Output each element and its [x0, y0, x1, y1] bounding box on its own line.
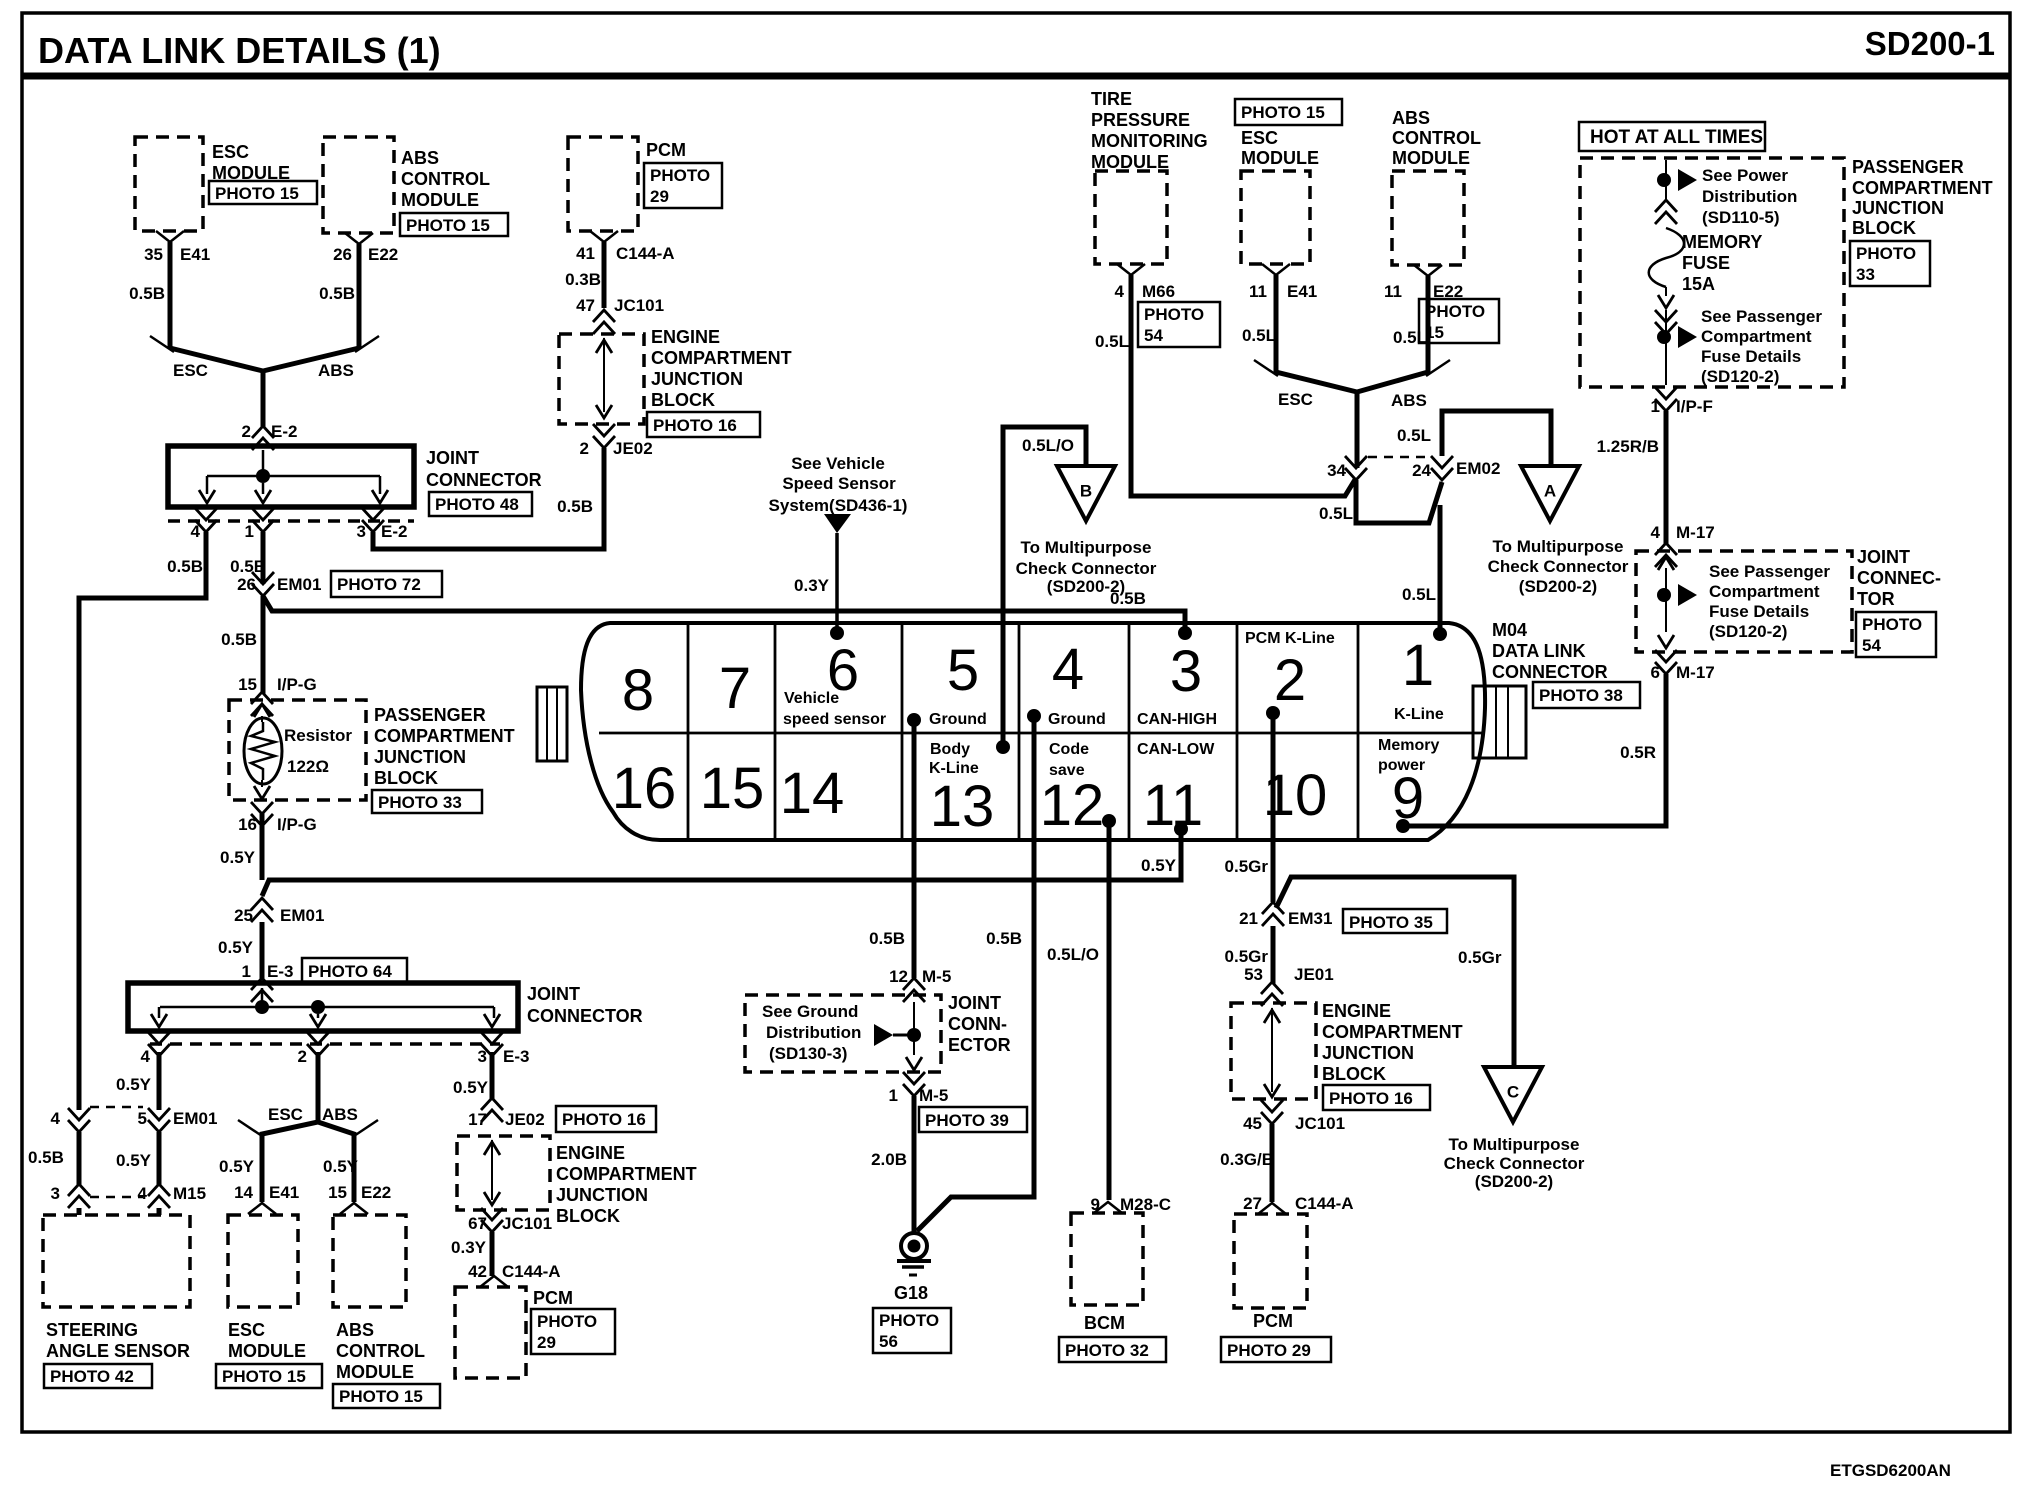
wire 0.5Gr EM31-21 to JE01 53 [1271, 926, 1276, 984]
label JOINT CONNECTOR (2) [527, 984, 643, 1026]
label 15 I/P-G [238, 675, 317, 694]
resistor R 122ohm ellipse [244, 718, 282, 784]
svg-text:15: 15 [700, 756, 765, 821]
svg-text:0.5L: 0.5L [1393, 328, 1427, 347]
svg-text:EM01: EM01 [277, 575, 321, 594]
svg-text:To Multipurpose: To Multipurpose [1493, 537, 1624, 556]
svg-text:12: 12 [1040, 773, 1105, 838]
svg-text:M-5: M-5 [919, 1086, 948, 1105]
svg-text:JUNCTION: JUNCTION [374, 747, 466, 767]
svg-text:speed sensor: speed sensor [783, 711, 886, 728]
wire 0.5Y EM01-5 to M15-4 [157, 1132, 162, 1186]
svg-text:0.5B: 0.5B [986, 929, 1022, 948]
svg-text:6: 6 [1651, 663, 1660, 682]
svg-text:To Multipurpose: To Multipurpose [1021, 538, 1152, 557]
svg-text:PHOTO: PHOTO [650, 166, 710, 185]
svg-text:CONNEC-: CONNEC- [1857, 568, 1941, 588]
svg-text:ABS: ABS [322, 1105, 358, 1124]
label 0.5L (M66) [1095, 332, 1129, 351]
svg-text:26: 26 [237, 575, 256, 594]
label PHOTO 54 (M66) [1138, 302, 1220, 347]
svg-text:56: 56 [879, 1332, 898, 1351]
svg-text:PHOTO: PHOTO [1862, 615, 1922, 634]
label 0.5L (to K-Line) [1402, 585, 1436, 604]
reference arrow See Passenger Compartment Fuse Details [1678, 326, 1697, 348]
label 0.5B (to I/P-G) [221, 630, 257, 649]
svg-text:PHOTO 64: PHOTO 64 [308, 962, 392, 981]
label 12 M-5 [889, 967, 951, 986]
label 0.5Y (ESC branch) [219, 1157, 255, 1176]
svg-text:HOT AT ALL TIMES: HOT AT ALL TIMES [1590, 127, 1763, 148]
svg-text:ESC: ESC [228, 1320, 265, 1340]
connector chevron EM02 pin 34 [1345, 456, 1367, 480]
svg-text:Ground: Ground [929, 711, 987, 728]
svg-text:26: 26 [333, 245, 352, 264]
label See Passenger Compartment Fuse Details (SD120-2) [1701, 307, 1822, 386]
label 0.5L (below 34) [1319, 504, 1353, 523]
svg-text:BLOCK: BLOCK [374, 768, 438, 788]
svg-text:PHOTO: PHOTO [1425, 302, 1485, 321]
label 9 M28-C [1091, 1195, 1171, 1214]
label 11 E22 [1384, 282, 1463, 301]
module PCM (top) dashed box [568, 137, 638, 231]
connector chevron E-3 pin 4 [148, 1032, 170, 1056]
svg-text:0.5B: 0.5B [167, 557, 203, 576]
connector chevron above fuse [1655, 200, 1677, 224]
wire into steering angle sensor (left) [77, 1208, 82, 1215]
svg-text:FUSE: FUSE [1682, 253, 1730, 273]
connector chevron JC101 pin 45 [1261, 1100, 1283, 1124]
label PHOTO 16 (bottom right) [1323, 1085, 1430, 1110]
svg-text:ENGINE: ENGINE [556, 1143, 625, 1163]
DLC cell border 1 [687, 623, 690, 840]
svg-text:MODULE: MODULE [401, 190, 479, 210]
label 14 E41 [234, 1183, 299, 1202]
wire 0.5B from E-2 pin 4 to EM01 pin 4 (long left) [79, 532, 206, 1110]
label To Multipurpose Check Connector (C) [1444, 1135, 1585, 1191]
data link connector M04 outline [581, 623, 1485, 840]
label 0.5L (E22 11) [1393, 328, 1427, 347]
svg-text:PCM: PCM [1253, 1311, 1293, 1331]
label 0.5B (pin4 wire) [167, 557, 203, 576]
label PHOTO 72 [331, 571, 442, 597]
svg-text:54: 54 [1862, 636, 1881, 655]
svg-text:ABS: ABS [336, 1320, 374, 1340]
svg-text:JE02: JE02 [505, 1110, 545, 1129]
label JOINT CONNECTOR (1) [426, 448, 542, 490]
resistor wire arrow in (top) [254, 704, 270, 722]
svg-text:17: 17 [468, 1110, 487, 1129]
label 0.5L (E41 11) [1242, 326, 1276, 345]
connector notch C144-A pin 42 [480, 1276, 508, 1287]
label 4 M66 [1115, 282, 1176, 301]
svg-text:Compartment: Compartment [1709, 582, 1820, 601]
svg-text:PHOTO 16: PHOTO 16 [562, 1110, 646, 1129]
svg-text:DATA LINK DETAILS (1): DATA LINK DETAILS (1) [38, 30, 441, 71]
DLC cell border 3 [901, 623, 904, 840]
wire merge ESC/ABS to node E-2 [170, 348, 359, 428]
svg-text:I/P-F: I/P-F [1676, 397, 1713, 416]
module BCM dashed box [1071, 1213, 1143, 1305]
label 0.3G/B [1220, 1150, 1274, 1169]
svg-text:1: 1 [889, 1086, 898, 1105]
wire stub ground distribution [893, 1034, 914, 1037]
svg-text:ECTOR: ECTOR [948, 1035, 1011, 1055]
svg-text:PHOTO: PHOTO [537, 1312, 597, 1331]
label 0.5Gr (EM31 21) [1225, 947, 1269, 966]
joint connector 2 box [128, 983, 518, 1031]
svg-text:PCM K-Line: PCM K-Line [1245, 630, 1335, 647]
label 0.5L/O (pin 12) [1047, 945, 1099, 964]
svg-text:0.5B: 0.5B [28, 1148, 64, 1167]
reference arrow See Passenger Compartment Fuse Details (M-17) [1678, 584, 1697, 606]
label 15 E22 [328, 1183, 391, 1202]
label 2 JE02 [580, 439, 653, 458]
svg-text:4: 4 [1052, 637, 1084, 702]
wire E-3 pin2 split to ESC and ABS [238, 1052, 378, 1202]
DLC cell border 2 [774, 623, 777, 840]
svg-text:ABS: ABS [401, 148, 439, 168]
connector chevron E-2 pin 4 [195, 508, 217, 532]
connector chevron JE02 pin 2 [593, 424, 615, 448]
DLC pin number 12 [1040, 773, 1105, 838]
label PHOTO 64 [302, 958, 407, 984]
label 1.25R/B [1597, 437, 1659, 456]
svg-text:MODULE: MODULE [336, 1362, 414, 1382]
svg-text:2: 2 [580, 439, 589, 458]
wire 1.25R/B I/P-F to M-17 4 [1664, 411, 1669, 545]
svg-text:11: 11 [1249, 282, 1267, 301]
junction block internal wire (top) [596, 338, 612, 418]
wire 0.5B from ESC module pin 35 [150, 242, 174, 352]
DLC pin number 4 [1052, 637, 1084, 702]
DLC pin number 5 [947, 638, 979, 703]
svg-text:3: 3 [51, 1184, 60, 1203]
svg-text:COMPARTMENT: COMPARTMENT [1322, 1022, 1463, 1042]
svg-text:0.5B: 0.5B [557, 497, 593, 516]
svg-text:EM02: EM02 [1456, 459, 1500, 478]
svg-text:ENGINE: ENGINE [651, 327, 720, 347]
label M04 DATA LINK CONNECTOR [1492, 620, 1608, 682]
label 0.5L (above EM02) [1397, 426, 1431, 445]
svg-text:2: 2 [1274, 648, 1306, 713]
connector notch E41 pin 35 [156, 231, 184, 242]
svg-text:0.5Y: 0.5Y [453, 1078, 489, 1097]
svg-text:47: 47 [576, 296, 595, 315]
label 0.5Gr (to C) [1458, 948, 1502, 967]
svg-text:CONTROL: CONTROL [1392, 128, 1481, 148]
svg-text:ANGLE SENSOR: ANGLE SENSOR [46, 1341, 190, 1361]
svg-text:See Power: See Power [1702, 166, 1788, 185]
svg-text:M04: M04 [1492, 620, 1527, 640]
DLC pin number 8 [622, 658, 654, 723]
svg-text:To Multipurpose: To Multipurpose [1449, 1135, 1580, 1154]
wire EM02-24 up to ref A [1442, 411, 1551, 466]
svg-text:15: 15 [238, 675, 257, 694]
label 25 EM01 [234, 906, 324, 925]
module ESC MODULE (top left) dashed box [135, 137, 203, 231]
wire 0.5Y E-3 pin3 to JE02 17 [490, 1052, 495, 1100]
label PHOTO 15 (ABS module) [400, 213, 508, 236]
svg-text:PHOTO: PHOTO [879, 1311, 939, 1330]
svg-text:E-3: E-3 [503, 1047, 529, 1066]
label CAN-HIGH [1137, 711, 1217, 728]
svg-text:JUNCTION: JUNCTION [1852, 198, 1944, 218]
junction dot (fuse details) [1657, 330, 1671, 344]
label To Multipurpose Check Connector (B) [1016, 538, 1157, 596]
resistor wire arrow out (bottom) [254, 780, 270, 799]
label PHOTO 35 [1343, 909, 1447, 933]
label Body K-Line [929, 741, 979, 777]
svg-text:0.5L/O: 0.5L/O [1022, 436, 1074, 455]
svg-text:PHOTO 15: PHOTO 15 [406, 216, 490, 235]
label 0.3Y (speed sensor) [794, 576, 830, 595]
label PHOTO 15 (ESC top) [1235, 99, 1342, 125]
label 2 E-2 [242, 422, 298, 441]
svg-text:G18: G18 [894, 1283, 928, 1303]
connector chevron E-3 pin 1 [251, 978, 273, 1002]
svg-text:12: 12 [889, 967, 908, 986]
svg-text:3: 3 [1170, 639, 1202, 704]
joint connector 1 box [168, 446, 414, 507]
svg-text:M-17: M-17 [1676, 663, 1715, 682]
svg-text:CAN-LOW: CAN-LOW [1137, 741, 1215, 758]
svg-text:4: 4 [191, 522, 201, 541]
svg-text:Ground: Ground [1048, 711, 1106, 728]
svg-text:(SD120-2): (SD120-2) [1701, 367, 1779, 386]
connector chevron JC101 pin 47 [593, 310, 615, 334]
svg-text:JOINT: JOINT [1857, 547, 1910, 567]
connector notch E22 pin 15 [340, 1203, 368, 1214]
svg-text:33: 33 [1856, 265, 1875, 284]
wire 0.5B DLC pin 4 to ground G18 [917, 716, 1034, 1231]
svg-text:PCM: PCM [533, 1288, 573, 1308]
label pins 4 2 3 E-3 [141, 1047, 530, 1066]
connector chevron E-2 pin 1 [252, 508, 274, 532]
connector E-3 dashed row [150, 1042, 500, 1046]
label ABS CONTROL MODULE [401, 148, 490, 210]
title DATA LINK DETAILS (1) [38, 30, 441, 71]
wire 2.0B M-5 1 to ground G18 [912, 1096, 917, 1234]
label K-Line [1394, 706, 1444, 723]
engine compartment junction block (bottom left) dashed box [457, 1136, 550, 1210]
svg-text:JE01: JE01 [1294, 965, 1334, 984]
svg-text:41: 41 [576, 244, 595, 263]
connector notch E22 pin 11 [1414, 265, 1442, 276]
svg-text:0.5R: 0.5R [1620, 743, 1656, 762]
svg-text:B: B [1080, 481, 1092, 500]
svg-text:M66: M66 [1142, 282, 1175, 301]
svg-text:EM01: EM01 [173, 1109, 217, 1128]
wire 0.5Gr EM31 branch to ref C [1276, 877, 1514, 1067]
svg-text:BLOCK: BLOCK [1322, 1064, 1386, 1084]
svg-text:Fuse Details: Fuse Details [1709, 602, 1809, 621]
svg-text:Check Connector: Check Connector [1444, 1154, 1585, 1173]
svg-text:ESC: ESC [1241, 128, 1278, 148]
svg-text:ESC: ESC [1278, 390, 1313, 409]
connector notch E41 pin 11 [1262, 264, 1290, 275]
label 0.5Y (EM01 5 to M15 4) [116, 1151, 152, 1170]
label PHOTO 15 (ESC bottom) [216, 1364, 322, 1388]
wire 0.5L/O DLC pin 12 to BCM M28-C 9 [1107, 821, 1112, 1200]
svg-text:JUNCTION: JUNCTION [651, 369, 743, 389]
svg-text:Distribution: Distribution [766, 1023, 861, 1042]
joint connector (M-17) dashed box [1636, 551, 1852, 652]
svg-text:DATA LINK: DATA LINK [1492, 641, 1586, 661]
svg-text:0.5Y: 0.5Y [1141, 856, 1177, 875]
connector M15 dashed link [90, 1196, 143, 1199]
svg-text:11: 11 [1143, 773, 1203, 838]
label ESC MODULE (bottom) [228, 1320, 306, 1361]
label PASSENGER COMPARTMENT JUNCTION BLOCK (resistor) [374, 705, 515, 788]
DLC pin number 11 [1143, 773, 1203, 838]
svg-text:C: C [1507, 1082, 1519, 1101]
joint connector 2 internal bus [160, 988, 494, 1007]
node dot DLC pin 11 [1174, 822, 1188, 836]
connector chevron I/P-G pin 16 [251, 802, 273, 826]
wire 0.5Y bus from DLC pin 11 to EM01 25 [262, 829, 1181, 896]
svg-text:0.5B: 0.5B [869, 929, 905, 948]
svg-text:54: 54 [1144, 326, 1163, 345]
junction dot inside joint connector 1 [256, 469, 270, 483]
svg-text:JOINT: JOINT [948, 993, 1001, 1013]
DLC pin number 1 [1402, 633, 1434, 698]
module ESC MODULE (top middle) dashed box [1241, 171, 1310, 264]
svg-text:E-2: E-2 [381, 522, 407, 541]
passenger compartment junction block (fuse) dashed box [1580, 158, 1844, 387]
svg-text:CAN-HIGH: CAN-HIGH [1137, 711, 1217, 728]
svg-text:A: A [1544, 481, 1556, 500]
svg-text:(SD130-3): (SD130-3) [769, 1044, 847, 1063]
svg-text:15A: 15A [1682, 274, 1715, 294]
wire 0.5L E22-11 to merge [1357, 276, 1450, 392]
label 0.5Y (EM01 25) [218, 938, 254, 957]
svg-text:Distribution: Distribution [1702, 187, 1797, 206]
svg-text:PHOTO: PHOTO [1856, 244, 1916, 263]
wire 0.5Gr DLC pin 2 to EM31 21 [1271, 713, 1276, 902]
svg-text:PHOTO 35: PHOTO 35 [1349, 913, 1433, 932]
svg-text:JC101: JC101 [1295, 1114, 1345, 1133]
svg-text:4: 4 [51, 1109, 61, 1128]
svg-text:M15: M15 [173, 1184, 206, 1203]
label 0.5Gr (pin 2) [1225, 857, 1269, 876]
wire EM01-26 down to I/P-G 15 [261, 596, 266, 694]
svg-text:JC101: JC101 [614, 296, 664, 315]
svg-text:0.5L: 0.5L [1319, 504, 1353, 523]
svg-text:E41: E41 [180, 245, 210, 264]
junction dot A inside joint connector 2 [255, 1000, 269, 1014]
connector chevron JC101 pin 67 [481, 1208, 503, 1232]
svg-text:SD200-1: SD200-1 [1865, 25, 1995, 62]
svg-text:See Passenger: See Passenger [1709, 562, 1830, 581]
wire E-2 pin1 to EM01 26 [261, 532, 266, 584]
connector chevron JE01 pin 53 [1261, 982, 1283, 1006]
wire below EM02-34 loop to EM02-24 [1356, 480, 1442, 523]
svg-text:15: 15 [1425, 323, 1444, 342]
svg-text:(SD200-2): (SD200-2) [1519, 577, 1597, 596]
svg-text:0.5Gr: 0.5Gr [1225, 857, 1269, 876]
svg-text:Memory: Memory [1378, 737, 1439, 754]
wire 0.5L/O ref B to DLC pin 13 Body K-Line [1003, 427, 1086, 747]
svg-text:0.5B: 0.5B [129, 284, 165, 303]
svg-text:5: 5 [138, 1109, 147, 1128]
label 0.5B (E22 26) [319, 284, 355, 303]
label See Passenger Compartment Fuse Details (M-17) [1709, 562, 1830, 641]
fuse wire lower [1665, 310, 1667, 385]
junction dot (M-17) [1657, 588, 1671, 602]
joint connector 1 internal arrow pin3 [372, 476, 388, 503]
label PHOTO 32 [1059, 1337, 1166, 1362]
svg-text:COMPARTMENT: COMPARTMENT [556, 1164, 697, 1184]
svg-text:MONITORING: MONITORING [1091, 131, 1208, 151]
label Vehicle speed sensor [783, 690, 886, 728]
wire 0.5Y I/P-G 16 down [260, 813, 265, 880]
DLC left key [537, 687, 567, 761]
label 1 E-3 [242, 962, 294, 981]
connector EM02 dashed link [1368, 456, 1428, 459]
connector chevron EM01 pin 4 (far left) [68, 1108, 90, 1132]
label 0.5B (pin1 wire) [230, 557, 266, 576]
svg-text:I/P-G: I/P-G [277, 815, 317, 834]
svg-text:System(SD436-1): System(SD436-1) [769, 496, 908, 515]
svg-text:E-3: E-3 [267, 962, 293, 981]
junction block internal wire (bottom left) [484, 1140, 500, 1205]
svg-text:PASSENGER: PASSENGER [1852, 157, 1964, 177]
module TIRE PRESSURE MONITORING MODULE dashed box [1095, 171, 1167, 264]
svg-text:2: 2 [298, 1047, 307, 1066]
svg-text:0.5Gr: 0.5Gr [1225, 947, 1269, 966]
label ESC (merge branch) [173, 361, 208, 380]
see ground distribution dashed box [745, 995, 941, 1072]
junction dot B inside joint connector 2 [311, 1000, 325, 1014]
label 45 JC101 [1243, 1114, 1345, 1133]
connector chevron M-5 pin 1 [903, 1072, 925, 1096]
svg-text:CONTROL: CONTROL [336, 1341, 425, 1361]
label PHOTO 38 [1533, 682, 1640, 708]
label 35 E41 [144, 245, 210, 264]
svg-text:EM31: EM31 [1288, 909, 1332, 928]
label PHOTO 15 (ABS bottom) [333, 1384, 440, 1408]
label PCM (bottom left) [533, 1288, 573, 1308]
label ENGINE COMPARTMENT JUNCTION BLOCK (bottom right) [1322, 1001, 1463, 1084]
label 0.5B (to M-5 12) [869, 929, 905, 948]
svg-text:MODULE: MODULE [1241, 148, 1319, 168]
svg-text:0.5Y: 0.5Y [116, 1075, 152, 1094]
label Memory power [1378, 737, 1439, 774]
label 0.3B [565, 270, 601, 289]
label 0.5B (to CAN-HIGH) [1110, 589, 1146, 608]
svg-text:I/P-G: I/P-G [277, 675, 317, 694]
svg-text:0.5Y: 0.5Y [116, 1151, 152, 1170]
svg-text:PHOTO 15: PHOTO 15 [215, 184, 299, 203]
reference triangle (speed sensor) [824, 514, 851, 533]
svg-text:29: 29 [650, 187, 669, 206]
connector notch E22 pin 26 [345, 233, 373, 244]
label pins 4 1 3 E-2 [191, 522, 408, 541]
svg-text:CONN-: CONN- [948, 1014, 1007, 1034]
connector chevron EM01 pin 5 [148, 1108, 170, 1132]
label ENGINE COMPARTMENT JUNCTION BLOCK (bottom left) [556, 1143, 697, 1226]
svg-text:Check Connector: Check Connector [1016, 559, 1157, 578]
svg-text:C144-A: C144-A [1295, 1194, 1354, 1213]
label Resistor 122ohm [284, 726, 352, 776]
label See Ground Distribution (SD130-3) [762, 1002, 861, 1063]
label 4 (EM01 far left) [51, 1109, 61, 1128]
connector chevron I/P-F pin 1 [1655, 387, 1677, 411]
node dot DLC pin 2 [1266, 706, 1280, 720]
label 26 EM01 [237, 575, 321, 594]
svg-text:E41: E41 [1287, 282, 1317, 301]
